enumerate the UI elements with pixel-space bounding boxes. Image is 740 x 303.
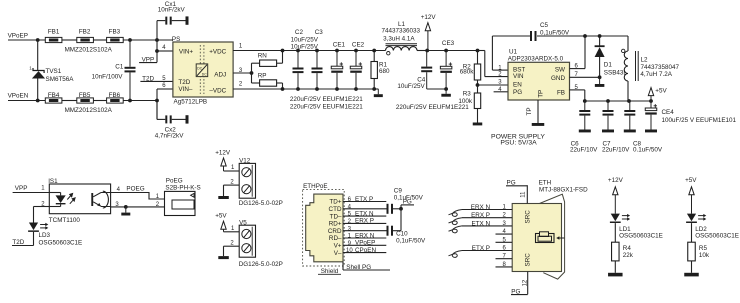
- wire PS pin 4 from VPoEP/VPP: [156, 40, 158, 62]
- svg-text:22uF/10V: 22uF/10V: [570, 146, 598, 153]
- pin 2 of ETH: [462, 217, 512, 219]
- svg-text:EN: EN: [513, 81, 522, 88]
- svg-text:LD3: LD3: [39, 232, 51, 239]
- svg-text:3,3uH 4.1A: 3,3uH 4.1A: [383, 36, 415, 43]
- svg-text:Ag5712LPB: Ag5712LPB: [174, 98, 208, 105]
- svg-text:ETX N: ETX N: [471, 220, 490, 227]
- svg-text:C1: C1: [115, 63, 124, 70]
- node L2/C8 junction: [627, 99, 631, 103]
- node D1 anode junction: [598, 75, 602, 79]
- svg-text:VPP: VPP: [15, 185, 28, 192]
- wire PS pin 6 to VPoEN/Cx2: [157, 88, 173, 90]
- ground symbol at IS1 pin 3: [125, 207, 127, 213]
- polarity dot of L1: [387, 52, 390, 55]
- svg-text:OSG50603C1E: OSG50603C1E: [39, 239, 83, 246]
- svg-text:10uF/25V: 10uF/25V: [291, 43, 319, 50]
- node R1 top junction: [372, 49, 376, 53]
- ground symbol below D1: [599, 77, 601, 84]
- svg-text:10nF/100V: 10nF/100V: [92, 73, 124, 80]
- shield pin Shell PG of ETHPoE: [342, 262, 344, 270]
- shield stub terminal of Cx2: [186, 115, 189, 123]
- node VPoEP-Cx1 junction: [155, 38, 159, 42]
- LED LD1 OSG50603C1E: [611, 214, 620, 222]
- svg-text:+5V: +5V: [215, 213, 227, 220]
- node VPoEN-pin6 junction: [155, 99, 159, 103]
- svg-text:+12V: +12V: [608, 177, 624, 184]
- svg-text:0.1uF/50V: 0.1uF/50V: [633, 146, 663, 153]
- svg-text:RN: RN: [258, 53, 268, 60]
- svg-text:SM6T56A: SM6T56A: [46, 76, 75, 83]
- arrow pointing at RJ45 icon: [559, 237, 565, 239]
- node RP-rail junction: [281, 87, 285, 91]
- svg-text:VIN+: VIN+: [179, 49, 193, 56]
- wire GND pin 7 of U1 to D1 anode: [570, 76, 600, 78]
- svg-text:4,7nF/2kV: 4,7nF/2kV: [155, 133, 185, 140]
- svg-text:VIN–: VIN–: [178, 86, 192, 93]
- svg-text:MTJ-88GX1-FSD: MTJ-88GX1-FSD: [539, 186, 588, 193]
- node pin3 ground junction: [124, 205, 128, 209]
- svg-text:VPoEP: VPoEP: [8, 33, 28, 40]
- svg-text:–VDC: –VDC: [209, 87, 226, 94]
- svg-text:R3: R3: [463, 91, 472, 98]
- ground symbol below CE4: [645, 130, 657, 133]
- node R2 rail junction: [476, 49, 480, 53]
- svg-text:C10: C10: [396, 231, 408, 238]
- svg-text:ETX P: ETX P: [355, 196, 373, 203]
- svg-text:0,1uF/50V: 0,1uF/50V: [396, 238, 426, 245]
- LED LD3 OSG50603C1E: [29, 223, 38, 231]
- svg-text:CTD: CTD: [329, 206, 342, 213]
- svg-text:V+: V+: [334, 243, 342, 250]
- svg-text:C5: C5: [540, 22, 549, 29]
- wire VIN to U1 pin 2: [478, 50, 485, 52]
- svg-text:OSG50603C1E: OSG50603C1E: [619, 233, 663, 240]
- pin 8 of ETH: [496, 266, 513, 268]
- svg-text:SRC: SRC: [525, 210, 532, 224]
- pin 5 of ETH: [496, 241, 513, 243]
- svg-text:CE1: CE1: [333, 42, 346, 49]
- svg-text:+5V: +5V: [685, 177, 697, 184]
- wire VPoEP rail: [8, 39, 45, 41]
- wire +5V output rail: [585, 100, 651, 102]
- svg-text:DC: DC: [202, 72, 207, 76]
- svg-text:100k: 100k: [458, 98, 473, 105]
- LED LD2 OSG50603C1E: [687, 214, 696, 222]
- svg-text:TD+: TD+: [329, 199, 341, 206]
- wire ADJ pin 3: [233, 72, 251, 74]
- svg-text:D1: D1: [604, 62, 613, 69]
- node SW-C5 junction: [583, 34, 587, 38]
- svg-text:VPoEN: VPoEN: [8, 93, 29, 100]
- node C7 junction: [606, 99, 610, 103]
- emission arrows inside IS1: [67, 194, 75, 204]
- svg-text:VIN: VIN: [513, 73, 524, 80]
- svg-text:V–: V–: [334, 250, 342, 257]
- svg-text:CRD: CRD: [328, 228, 342, 235]
- svg-text:FB: FB: [557, 89, 565, 96]
- pin 4 of ETH: [496, 233, 513, 235]
- svg-text:CE3: CE3: [442, 40, 455, 47]
- node D1 top junction: [598, 34, 602, 38]
- node +12V/C4 junction: [425, 49, 429, 53]
- svg-text:10k: 10k: [699, 252, 710, 259]
- node FB/C6 junction: [583, 99, 587, 103]
- svg-text:12: 12: [522, 279, 528, 286]
- svg-text:220uF/25V EEUFM1E221: 220uF/25V EEUFM1E221: [290, 96, 363, 103]
- svg-text:TD–: TD–: [330, 213, 342, 220]
- polarity dot of L2: [622, 49, 625, 52]
- svg-text:+VDC: +VDC: [209, 49, 226, 56]
- ground symbol below C6: [579, 130, 591, 133]
- svg-text:CE4: CE4: [662, 109, 675, 116]
- svg-text:R4: R4: [623, 245, 632, 252]
- node VPoEP-TVS junction: [36, 38, 40, 42]
- svg-text:FB3: FB3: [109, 28, 121, 35]
- svg-text:22k: 22k: [623, 252, 634, 259]
- svg-text:ETX P: ETX P: [472, 245, 490, 252]
- svg-text:74437358047: 74437358047: [641, 64, 680, 71]
- node CE3 ground junction: [444, 87, 448, 91]
- svg-text:680k: 680k: [460, 69, 475, 76]
- wire PG stub U1 pin 4: [494, 91, 508, 93]
- svg-text:220uF/25V EEUFM1E221: 220uF/25V EEUFM1E221: [290, 104, 363, 111]
- svg-text:DG126-5.0-02P: DG126-5.0-02P: [239, 261, 283, 268]
- svg-text:FB2: FB2: [79, 28, 91, 35]
- svg-text:680: 680: [379, 68, 390, 75]
- RJ45 port icon inside ETH: [536, 234, 555, 243]
- wire -VDC rail (PS pin2): [233, 88, 378, 90]
- svg-text:MMZ2012S102A: MMZ2012S102A: [65, 47, 113, 54]
- phototransistor inside IS1: [91, 193, 93, 206]
- wire +VDC rail (PS pin1 to U1): [233, 50, 385, 52]
- wire VPoEN rail: [8, 100, 45, 102]
- svg-text:S2B-PH-K-S: S2B-PH-K-S: [165, 185, 200, 192]
- svg-text:22uF/10V: 22uF/10V: [602, 146, 630, 153]
- svg-text:10uF/25V: 10uF/25V: [397, 83, 425, 90]
- svg-text:C3: C3: [315, 29, 324, 36]
- svg-text:RP: RP: [258, 73, 267, 80]
- svg-text:CE2: CE2: [352, 42, 365, 49]
- node CE3 rail junction: [444, 49, 448, 53]
- pin 6 of ETH: [462, 250, 512, 252]
- DC/DC symbol inside PS: [196, 64, 208, 77]
- node VPoEN-C1 junction: [128, 99, 132, 103]
- svg-text:ERX P: ERX P: [355, 218, 374, 225]
- ground symbol below R1: [374, 88, 378, 90]
- svg-text:POEG: POEG: [126, 186, 144, 193]
- svg-text:GND: GND: [551, 75, 565, 82]
- svg-text:R5: R5: [699, 245, 708, 252]
- node C9/C10/PG junction: [399, 207, 403, 211]
- isolation barrier dashed lines inside PS: [199, 45, 201, 94]
- svg-text:RD–: RD–: [329, 235, 342, 242]
- svg-text:4,7uH 7.2A: 4,7uH 7.2A: [640, 71, 672, 78]
- ground symbol below C7: [602, 130, 614, 133]
- svg-text:CPoEN: CPoEN: [355, 247, 376, 254]
- ground symbol below R4: [608, 273, 623, 277]
- wire FB pin 5 of U1 to +5V rail: [570, 89, 585, 91]
- pin 12 PG of ETH (bottom): [527, 272, 529, 295]
- svg-text:L2: L2: [641, 56, 649, 63]
- shield stub terminal of Cx1: [186, 16, 189, 24]
- wire IS1 pin 2 to LD3: [34, 206, 50, 208]
- svg-text:ERX P: ERX P: [471, 212, 490, 219]
- svg-text:TP: TP: [538, 90, 545, 98]
- svg-text:SW: SW: [555, 66, 565, 73]
- svg-text:10: 10: [346, 248, 353, 254]
- svg-text:PoEG: PoEG: [166, 177, 183, 184]
- wire EN to U1 pin 3: [478, 84, 509, 86]
- pin 3 of ETH: [462, 225, 512, 227]
- svg-text:C2: C2: [295, 29, 304, 36]
- svg-text:Shell PG: Shell PG: [346, 264, 371, 271]
- svg-text:11: 11: [521, 191, 527, 198]
- node VPoEP-C1 junction: [128, 38, 132, 42]
- svg-text:PSU: 5V/3A: PSU: 5V/3A: [500, 140, 537, 147]
- pin 1 of ETH: [462, 209, 512, 211]
- svg-text:10nF/2kV: 10nF/2kV: [158, 7, 186, 14]
- twisted pair squiggle at ETH pin 1: [449, 210, 463, 217]
- ground symbol below R3: [473, 123, 483, 126]
- node CE4 junction: [649, 99, 653, 103]
- svg-text:220uF/25V EEUFM1E221: 220uF/25V EEUFM1E221: [396, 104, 469, 111]
- TP test point ground below U1: [537, 100, 539, 123]
- svg-text:FB1: FB1: [48, 28, 60, 35]
- svg-text:ADJ: ADJ: [214, 72, 226, 79]
- svg-text:SRC: SRC: [525, 253, 532, 267]
- svg-text:ADP2303ARDX-5.0: ADP2303ARDX-5.0: [508, 56, 564, 63]
- ground symbol below C8: [624, 130, 636, 133]
- TVS diode TVS1 SM6T56A: [37, 40, 39, 71]
- svg-text:OSG50603C1E: OSG50603C1E: [695, 233, 739, 240]
- svg-text:ERX N: ERX N: [471, 204, 491, 211]
- node RN-rail junction: [281, 49, 285, 53]
- node VPoEN-TVS junction: [36, 99, 40, 103]
- svg-text:TVS1: TVS1: [46, 68, 62, 75]
- ground symbol below R5: [684, 273, 699, 277]
- twisted pair squiggle at ETH pin 6: [449, 251, 463, 258]
- svg-text:ETX N: ETX N: [355, 210, 374, 217]
- node pin4-VPP junction: [155, 49, 159, 53]
- node EN divider junction: [476, 83, 480, 87]
- svg-text:TCMT1100: TCMT1100: [49, 217, 81, 224]
- svg-text:DC: DC: [197, 66, 202, 70]
- ground symbol below CE3: [445, 89, 447, 94]
- node ADJ divider junction: [250, 71, 254, 75]
- svg-text:TP: TP: [526, 107, 533, 115]
- svg-text:100uF/25 V EEUFM1E101: 100uF/25 V EEUFM1E101: [662, 117, 737, 124]
- svg-text:74437336033: 74437336033: [382, 28, 421, 35]
- svg-text:RD+: RD+: [329, 221, 342, 228]
- LED inside IS1: [49, 192, 60, 194]
- twisted pair squiggle at ETH pin 3: [449, 226, 463, 233]
- pin 11 PG of ETH (top): [526, 185, 528, 203]
- svg-text:MMZ2012S102A: MMZ2012S102A: [65, 107, 113, 114]
- svg-text:ERX N: ERX N: [355, 232, 375, 239]
- svg-text:0,1uF/50V: 0,1uF/50V: [540, 29, 570, 36]
- svg-text:+12V: +12V: [215, 149, 231, 156]
- svg-text:VPoEP: VPoEP: [355, 240, 375, 247]
- svg-text:T2D: T2D: [178, 79, 190, 86]
- svg-text:DG126-5.0-02P: DG126-5.0-02P: [239, 200, 283, 207]
- svg-text:+5V: +5V: [655, 88, 667, 95]
- node R1 bottom junction: [372, 87, 376, 91]
- wire SW node: [570, 68, 586, 70]
- twisted pair squiggle at ETH pin 2: [449, 218, 463, 225]
- pin 7 of ETH: [496, 258, 513, 260]
- svg-text:1: 1: [29, 66, 32, 71]
- svg-text:+12V: +12V: [421, 14, 437, 21]
- svg-text:PG: PG: [513, 89, 522, 96]
